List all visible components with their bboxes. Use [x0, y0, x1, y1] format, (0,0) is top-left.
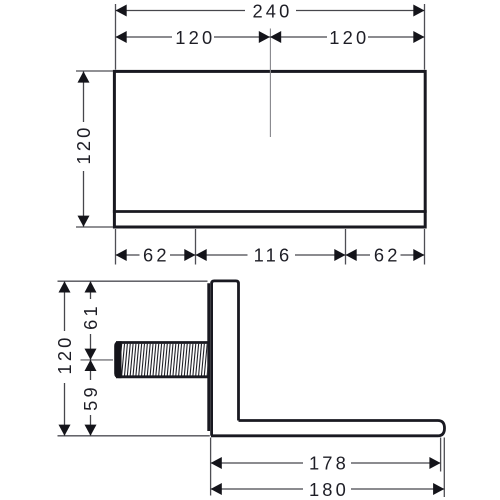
svg-text:120: 120 — [329, 27, 369, 48]
svg-text:62: 62 — [143, 245, 170, 266]
svg-text:180: 180 — [309, 479, 349, 500]
svg-text:59: 59 — [80, 384, 101, 411]
svg-text:178: 178 — [309, 453, 349, 474]
svg-text:240: 240 — [252, 1, 292, 22]
svg-text:120: 120 — [175, 27, 215, 48]
svg-text:120: 120 — [73, 124, 94, 164]
svg-text:62: 62 — [374, 245, 401, 266]
svg-text:120: 120 — [54, 334, 75, 374]
svg-text:61: 61 — [80, 303, 101, 330]
svg-text:116: 116 — [254, 245, 293, 266]
